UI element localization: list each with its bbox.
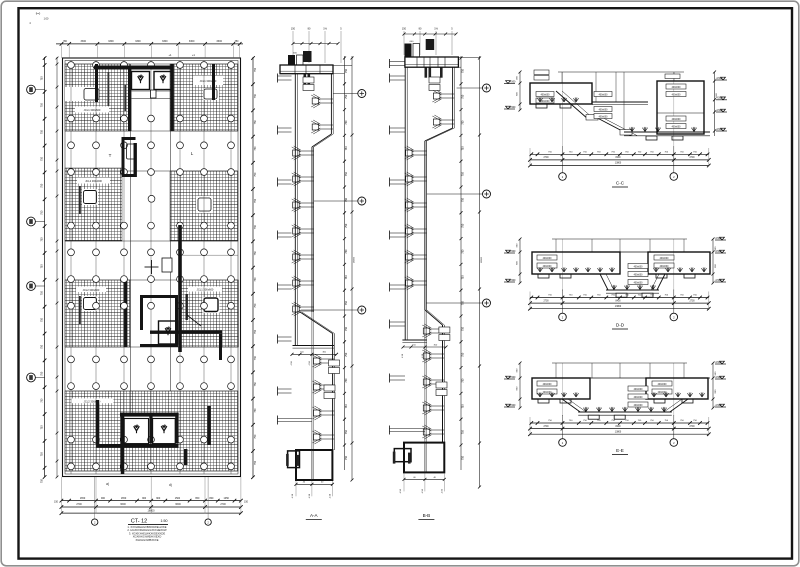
svg-text:1:00: 1:00: [44, 18, 49, 21]
svg-text:900: 900: [156, 497, 161, 500]
rotated rebar text column 1: [108, 72, 110, 106]
band edge lines horizontal: [65, 64, 238, 471]
rounded room band2 left: [82, 189, 98, 205]
svg-text:750: 750: [345, 326, 348, 331]
lift core cab box: [127, 144, 136, 159]
svg-text:3300: 3300: [135, 40, 141, 43]
detail E-E axis lines and bubbles: [562, 415, 564, 439]
svg-text:750: 750: [254, 303, 257, 308]
section A-A upper step diagonal: [312, 134, 332, 147]
svg-text:750: 750: [345, 455, 348, 460]
svg-text:750: 750: [345, 404, 348, 409]
raft hatch band 1 right: [170, 64, 238, 131]
detail C-C step boxes: [586, 115, 598, 121]
svg-text:750: 750: [461, 455, 464, 460]
svg-text:400x600: 400x600: [634, 274, 644, 276]
svg-text:3300: 3300: [162, 40, 168, 43]
section B-B pile through foot: [424, 443, 426, 473]
svg-text:-4.500: -4.500: [715, 376, 722, 379]
label strip band1 left: [75, 107, 109, 113]
detail D-D axis grid lines: [562, 239, 564, 291]
svg-text:C-C: C-C: [616, 181, 625, 186]
plan bottom extension lines: [61, 477, 241, 514]
wall vertical x207 low: [208, 406, 211, 445]
svg-text:400x600: 400x600: [543, 384, 553, 386]
band4 room mid wall: [149, 416, 152, 444]
svg-text:750: 750: [461, 197, 464, 202]
svg-text:6600: 6600: [175, 503, 181, 506]
svg-text:750: 750: [41, 371, 44, 376]
svg-text:750: 750: [41, 452, 44, 457]
pile cap circles grid: [68, 62, 235, 470]
section B-B foot rebar gylphs: [393, 452, 396, 464]
svg-text:750: 750: [41, 264, 44, 269]
svg-text:750: 750: [41, 129, 44, 134]
svg-text:2700: 2700: [689, 157, 695, 159]
detail D-D left block: [532, 252, 620, 274]
svg-text:13800: 13800: [615, 163, 622, 165]
svg-text:750: 750: [345, 172, 348, 177]
svg-text:400x600: 400x600: [672, 87, 682, 89]
detail E-E left block feet: [538, 399, 549, 403]
svg-text:-4.50: -4.50: [329, 493, 331, 499]
svg-text:6600: 6600: [120, 503, 126, 506]
section B-B axis circles: [457, 87, 483, 89]
detail C-C axis grid lines: [562, 72, 564, 146]
svg-text:750: 750: [345, 223, 348, 228]
room band4 2: [153, 419, 176, 444]
svg-text:750: 750: [254, 408, 257, 413]
svg-text:JCL1 300x600: JCL1 300x600: [84, 108, 101, 112]
rounded room band3 left: [82, 296, 98, 311]
svg-text:13800: 13800: [615, 431, 622, 433]
svg-text:-4.50: -4.50: [422, 488, 424, 494]
rotated rebar text column 2: [125, 85, 127, 111]
label cutout band1 right: [193, 76, 223, 86]
svg-text:950: 950: [195, 497, 200, 500]
svg-text:3300: 3300: [108, 40, 114, 43]
detail C-C step diagonals: [556, 91, 588, 119]
svg-text:1050: 1050: [224, 497, 230, 500]
section B-B pile foot block: [404, 443, 444, 473]
section A-A axis circles: [333, 93, 358, 95]
section B-B wall base line: [402, 339, 427, 341]
detail C-C left block labels: [534, 76, 549, 81]
svg-text:400x600: 400x600: [634, 266, 644, 268]
svg-text:D-D: D-D: [616, 323, 625, 328]
section A-A top dimension line: [293, 43, 338, 45]
svg-text:750: 750: [41, 478, 44, 483]
svg-text:E-E: E-E: [616, 448, 624, 453]
svg-text:750: 750: [461, 172, 464, 177]
svg-text:750: 750: [41, 344, 44, 349]
svg-text:1650: 1650: [80, 497, 86, 500]
raft hatch band 2 right: [170, 171, 238, 241]
svg-text:750: 750: [461, 326, 464, 331]
section A-A left soil stubs: [277, 74, 279, 83]
svg-text:XGKHGXWBXKXE: XGKHGXWBXKXE: [136, 538, 159, 542]
svg-text:900: 900: [101, 497, 106, 500]
rounded box band3 right: [203, 297, 220, 313]
svg-text:JCL2 300x600: JCL2 300x600: [85, 179, 102, 183]
section B-B foot left notch: [394, 449, 411, 462]
detail D-D excavation diagonals: [600, 274, 608, 290]
svg-text:a): a): [106, 482, 109, 486]
detail E-E pit bottom slab: [578, 411, 672, 413]
svg-text:1650: 1650: [121, 497, 127, 500]
detail E-E bottom dimension chain: [530, 422, 709, 424]
svg-text:2700: 2700: [689, 426, 695, 428]
svg-text:750: 750: [345, 68, 348, 73]
raft hatch band 3 left: [65, 280, 130, 347]
wall horizontal y331: [150, 331, 222, 334]
svg-text:400x600: 400x600: [543, 258, 553, 260]
svg-text:-4.500: -4.500: [715, 237, 722, 240]
corridor long wall right: [178, 225, 182, 352]
detail C-C bottom dimension chain: [530, 153, 709, 155]
detail E-E left block: [532, 378, 590, 399]
plan left axis bubbles: [36, 89, 45, 91]
section B-B left soil stubs: [389, 59, 391, 68]
svg-text:750: 750: [461, 120, 464, 125]
svg-text:750: 750: [41, 183, 44, 188]
raft hatch band 1 left: [65, 64, 130, 131]
column grid lines vertical: [71, 61, 231, 475]
svg-text:750: 750: [461, 404, 464, 409]
band4 room top wall: [120, 413, 179, 417]
svg-text:750: 750: [41, 156, 44, 161]
white band mid grid line: [180, 254, 238, 256]
svg-text:750: 750: [41, 103, 44, 108]
core2 bottom wall: [140, 344, 178, 347]
svg-text:750: 750: [345, 94, 348, 99]
svg-text:-4.50: -4.50: [309, 493, 311, 499]
section B-B slab ties to reference line: [458, 57, 479, 59]
section A-A below-slab waler bars: [304, 74, 307, 85]
detail C-C bottom slab: [624, 131, 710, 133]
detail C-C left block feet: [536, 104, 547, 108]
svg-text:d): d): [169, 483, 172, 487]
detail D-D grass marks: [537, 268, 540, 272]
svg-text:750: 750: [254, 460, 257, 465]
detail D-D bottom dimension chain: [530, 297, 709, 299]
svg-text:750: 750: [461, 146, 464, 151]
detail C-C left block grass: [537, 98, 540, 102]
detail E-E right block: [646, 378, 708, 399]
section B-B mid dimension line: [403, 346, 446, 348]
label strip band3 right: [188, 287, 222, 292]
wall vertical x96 band4: [96, 400, 99, 445]
svg-text:8400: 8400: [615, 157, 621, 159]
svg-text:-4.50: -4.50: [441, 488, 443, 494]
svg-text:400x600: 400x600: [634, 397, 644, 399]
svg-text:750: 750: [41, 210, 44, 215]
svg-text:400x600: 400x600: [541, 101, 551, 103]
svg-text:750: 750: [461, 249, 464, 254]
detail D-D right side dims: [712, 239, 714, 283]
svg-text:400x600: 400x600: [672, 94, 682, 96]
section A-A foot dimension lines: [296, 481, 332, 496]
svg-text:750: 750: [254, 251, 257, 256]
svg-text:750: 750: [254, 67, 257, 72]
section B-B lower pile wall: [442, 325, 444, 443]
section A-A wall base line: [293, 345, 335, 347]
svg-text:2700: 2700: [543, 300, 549, 302]
svg-text:2700: 2700: [76, 503, 82, 506]
svg-text:150: 150: [402, 28, 407, 31]
svg-text:400x600: 400x600: [599, 94, 609, 96]
plan right dimension line: [252, 57, 254, 477]
svg-text:-4.500: -4.500: [715, 404, 722, 407]
detail E-E left block label boxes: [537, 381, 557, 386]
svg-text:B-B: B-B: [423, 513, 431, 518]
plan top extension lines: [62, 45, 240, 58]
svg-text:3300: 3300: [189, 40, 195, 43]
detail E-E axis grid lines: [562, 363, 564, 416]
svg-text:8400: 8400: [615, 426, 621, 428]
section B-B upper wall segment: [452, 67, 454, 128]
svg-text:750: 750: [345, 352, 348, 357]
svg-text:750: 750: [41, 398, 44, 403]
detail D-D left side dims: [519, 239, 521, 283]
svg-text:CT- 12: CT- 12: [131, 519, 147, 525]
section A-A mid dimension line: [292, 353, 337, 355]
svg-text:400x600: 400x600: [658, 392, 668, 394]
svg-text:750: 750: [254, 329, 257, 334]
section B-B top dark anchor boxes: [405, 44, 412, 58]
svg-text:-4.500: -4.500: [509, 106, 516, 109]
svg-text:400x600: 400x600: [599, 116, 609, 118]
detail E-E right block feet: [654, 399, 665, 403]
lift core inner wall: [134, 143, 137, 177]
svg-text:150: 150: [291, 28, 296, 31]
svg-text:750: 750: [41, 76, 44, 81]
detail C-C right tall block: [657, 81, 704, 134]
raft hatch band 2 left: [65, 168, 122, 241]
detail C-C existing structure top line: [558, 71, 684, 73]
svg-text:-4.500: -4.500: [509, 404, 516, 407]
svg-text:750: 750: [254, 382, 257, 387]
svg-text:750: 750: [41, 317, 44, 322]
svg-text:1:50: 1:50: [161, 519, 168, 523]
section B-B long stub to pile: [389, 426, 391, 435]
svg-text:-4.500: -4.500: [716, 128, 723, 131]
white cutout rooms band4 centre: [121, 413, 179, 444]
svg-text:JCL2 300x600: JCL2 300x600: [83, 288, 100, 292]
section B-B upper step diagonal: [425, 128, 453, 141]
svg-text:750: 750: [461, 223, 464, 228]
band4 room right wall: [175, 413, 178, 444]
svg-text:T: T: [109, 153, 112, 158]
detail E-E right side dims: [712, 363, 714, 408]
svg-text:800: 800: [209, 497, 214, 500]
section A-A pile foot block: [296, 450, 332, 480]
section A-A capping beam slab: [280, 65, 333, 74]
white cutout stair left band1: [65, 87, 99, 101]
white square band2 right: [196, 196, 213, 213]
svg-text:-4.500: -4.500: [716, 97, 723, 100]
wall vertical x219: [219, 334, 222, 360]
section A-A right reference line 2: [351, 56, 353, 480]
detail C-C left dims: [519, 72, 521, 110]
door box between rooms: [151, 90, 157, 98]
detail E-E centre label boxes: [628, 386, 648, 391]
plan bottom axis bubbles: [94, 477, 96, 519]
svg-text:-4.500: -4.500: [715, 250, 722, 253]
svg-text:750: 750: [254, 146, 257, 151]
svg-text:9=0: 9=0: [36, 12, 41, 16]
detail C-C right dims: [714, 72, 716, 136]
svg-text:150: 150: [54, 500, 59, 503]
svg-text:750: 750: [345, 120, 348, 125]
plan left main dimension line: [44, 57, 46, 477]
svg-text:750: 750: [461, 94, 464, 99]
detail D-D right block feet: [656, 274, 667, 278]
svg-text:750: 750: [345, 146, 348, 151]
detail D-D axis lines and bubbles: [562, 290, 564, 314]
detail D-D right block label boxes: [654, 255, 674, 260]
detail D-D left block feet: [538, 274, 549, 278]
svg-text:1500: 1500: [175, 497, 181, 500]
svg-text:750: 750: [461, 430, 464, 435]
section A-A middle pile extension: [311, 147, 313, 480]
detail E-E existing structure top line: [552, 362, 687, 364]
svg-text:750: 750: [345, 301, 348, 306]
detail D-D pit bottom slab: [606, 289, 659, 291]
core2 right wall: [175, 298, 178, 347]
svg-text:2700: 2700: [220, 503, 226, 506]
room top-centre 2: [154, 72, 172, 90]
svg-text:-4.500: -4.500: [716, 77, 723, 80]
detail D-D centre label boxes: [628, 264, 648, 269]
svg-text:750: 750: [345, 378, 348, 383]
wall band1 x212: [212, 64, 215, 100]
svg-text:750: 750: [345, 430, 348, 435]
svg-text:-4.50: -4.50: [292, 493, 294, 499]
svg-text:-4.500: -4.500: [509, 250, 516, 253]
svg-text:750: 750: [41, 291, 44, 296]
svg-text:2700: 2700: [543, 157, 549, 159]
svg-text:750: 750: [461, 378, 464, 383]
detail D-D left block label boxes: [537, 255, 557, 260]
svg-text:400x600: 400x600: [543, 392, 553, 394]
plan top dimension line: [56, 43, 243, 45]
corridor-left wall band3: [124, 280, 127, 347]
room lower edge lines: [132, 90, 173, 92]
section A-A upper wall segment: [330, 74, 332, 134]
section A-A lower pile wall: [332, 334, 334, 451]
label strip band2 left: [77, 178, 110, 184]
corridor extra circle: [148, 195, 155, 202]
plan bottom dimension chain row1: [61, 500, 241, 502]
section B-B lower step diagonal: [425, 310, 442, 325]
section A-A pile through foot: [311, 450, 313, 480]
svg-text:400x600: 400x600: [634, 282, 644, 284]
detail E-E right block label boxes: [652, 381, 672, 386]
detail E-E left side dims: [519, 363, 521, 408]
section A-A right reference line 1: [344, 56, 346, 470]
section A-A label boxes: [303, 77, 314, 83]
svg-text:750: 750: [254, 434, 257, 439]
svg-text:750: 750: [345, 249, 348, 254]
corridor edge line right: [170, 64, 172, 391]
floor plan outer boundary: [63, 58, 241, 477]
svg-text:750: 750: [254, 277, 257, 282]
section B-B right reference line 1: [460, 56, 462, 470]
svg-text:-4.500: -4.500: [715, 361, 722, 364]
detail E-E excavation diagonals: [562, 399, 580, 412]
detail C-C axis lines and bubbles: [562, 146, 564, 173]
raft hatch band 4 bottom full width: [65, 391, 238, 471]
survey cross mark centre: [145, 266, 159, 268]
section A-A anchors: [312, 98, 319, 104]
rotated text bar band2 left: [79, 186, 81, 214]
svg-text:750: 750: [254, 198, 257, 203]
svg-text:8400: 8400: [615, 300, 621, 302]
section A-A foot rebar gylphs: [286, 454, 289, 466]
svg-text:2700: 2700: [689, 300, 695, 302]
section B-B foot dimension lines: [404, 473, 444, 491]
plan bottom dimension chain row2: [61, 506, 241, 508]
raft hatch band 3 right: [180, 280, 239, 347]
svg-text:-4.500: -4.500: [509, 279, 516, 282]
svg-text:150: 150: [244, 500, 249, 503]
section B-B capping beam slab: [405, 57, 459, 67]
svg-text:400x600: 400x600: [660, 258, 670, 260]
svg-text:400x600: 400x600: [599, 109, 609, 111]
svg-text:13800: 13800: [615, 306, 622, 308]
svg-text:3300: 3300: [81, 40, 87, 43]
room top-centre 1: [132, 72, 150, 90]
svg-text:400x600: 400x600: [541, 94, 551, 96]
detail C-C bottom grass: [629, 128, 632, 132]
detail C-C middle label boxes: [594, 92, 612, 97]
plan bottom total dimension: [61, 512, 241, 514]
plan left secondary dimension line: [56, 57, 58, 477]
corridor edge line left: [130, 64, 132, 413]
svg-text:-4.500: -4.500: [509, 80, 516, 83]
section B-B label boxes: [429, 77, 440, 83]
detail C-C right block labels: [666, 84, 686, 89]
svg-text:750: 750: [41, 425, 44, 430]
core2 left wall: [140, 298, 143, 330]
svg-text:JCL1 300x600: JCL1 300x600: [197, 288, 214, 292]
section A-A lower step diagonal: [300, 312, 333, 334]
wall band1 x95: [95, 64, 98, 102]
room band4 1: [124, 419, 148, 444]
wall horizontal y444 long: [97, 445, 179, 448]
section A-A left retaining wall: [294, 74, 296, 346]
section A-A long stub to pile: [277, 416, 279, 425]
detail C-C bottom slab feet: [646, 136, 657, 140]
svg-text:750: 750: [254, 355, 257, 360]
detail C-C left block: [530, 83, 592, 104]
svg-text:-4.500: -4.500: [716, 109, 723, 112]
svg-text:A-A: A-A: [310, 513, 319, 518]
svg-text:400x600: 400x600: [543, 266, 553, 268]
svg-text:-4.500: -4.500: [509, 376, 516, 379]
rounded box band1 right: [203, 88, 219, 100]
svg-text:750: 750: [461, 352, 464, 357]
svg-text:2700: 2700: [543, 426, 549, 428]
svg-text:750: 750: [461, 275, 464, 280]
detail E-E grass marks: [537, 393, 540, 397]
section B-B middle pile wall: [424, 141, 426, 310]
stair room rounded box: [84, 89, 99, 101]
section B-B right reference line 2: [479, 56, 481, 487]
svg-text:400x600: 400x600: [660, 266, 670, 268]
band4 room left wall: [121, 413, 124, 474]
